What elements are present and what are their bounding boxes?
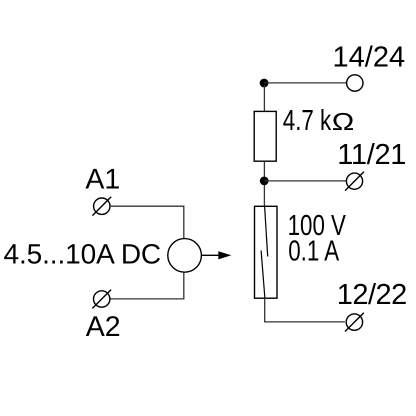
svg-text:11/21: 11/21 — [337, 139, 406, 171]
svg-text:4.5...10A DC: 4.5...10A DC — [4, 239, 162, 270]
svg-text:12/22: 12/22 — [337, 279, 407, 311]
svg-text:A2: A2 — [86, 311, 121, 343]
svg-text:0.1 A: 0.1 A — [288, 236, 339, 268]
svg-text:4.7 k: 4.7 k — [283, 105, 332, 137]
svg-text:Ω: Ω — [332, 109, 355, 136]
svg-text:A1: A1 — [85, 164, 120, 196]
svg-text:14/24: 14/24 — [333, 42, 406, 74]
